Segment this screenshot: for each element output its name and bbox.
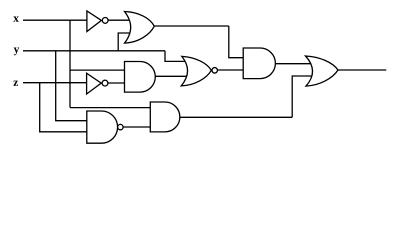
wire AND2 output to NOR1 bottom input	[155, 75, 187, 77]
node z input label	[13, 81, 18, 86]
or-gate U2 (OR1)	[125, 12, 155, 44]
wire OR2 output F	[338, 69, 386, 71]
wire y step to NOR1 top input	[165, 51, 185, 62]
wire AND3 output to OR2 top input	[275, 63, 311, 65]
nor-gate U5 (NOR1)	[181, 56, 217, 86]
and-gate U6 (AND3)	[243, 48, 275, 79]
wire OR1 output step down to AND3	[229, 26, 243, 58]
wire x to AND2 top input	[70, 69, 125, 71]
and-gate U4 (AND2 middle)	[125, 62, 156, 93]
inverter U3 (NOT z)	[87, 73, 108, 94]
wire U3 output to AND2 bottom input	[108, 82, 125, 84]
node y input label	[14, 48, 20, 56]
wire NAND1 output to AND4 bottom input	[123, 126, 150, 128]
wire x input	[23, 19, 87, 21]
wire U1 output to OR1	[108, 19, 129, 21]
wire OR1 output	[154, 25, 229, 27]
wire z input	[23, 82, 87, 84]
wire NOR1 output to AND3 bottom input	[218, 69, 244, 71]
wire AND4 output riser to OR2 bottom input	[292, 76, 312, 117]
or-gate U7 (OR2 final)	[306, 56, 339, 86]
wire AND4 output	[180, 116, 292, 118]
wire z branch down to NAND1 input 2	[40, 83, 87, 132]
and-gate U9 (AND4 bottom)	[150, 102, 180, 132]
wire y branch down to NAND1 input 1	[56, 51, 87, 121]
wire x passover to AND4 top input	[70, 107, 150, 109]
wire y input	[23, 50, 165, 52]
wire y branch up to OR1 bottom input	[118, 33, 130, 51]
node x input label	[13, 17, 19, 22]
wire x branch vertical	[69, 20, 71, 107]
inverter U1 (NOT x)	[87, 11, 108, 32]
nand-gate U8 (NAND1)	[87, 111, 123, 143]
